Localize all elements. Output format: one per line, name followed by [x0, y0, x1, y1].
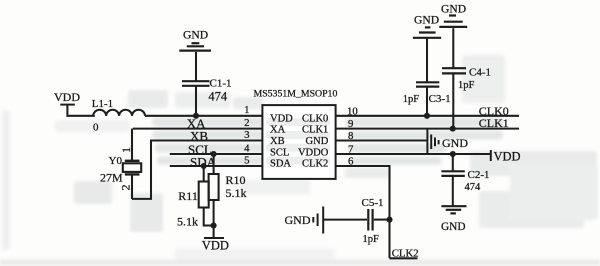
svg-text:4: 4 [244, 142, 250, 154]
svg-text:GND: GND [441, 221, 465, 233]
svg-text:CLK2: CLK2 [302, 159, 328, 170]
net label CLK0 [479, 104, 509, 118]
svg-text:VDDO: VDDO [298, 147, 329, 158]
inductor L1-1 value 0 [93, 110, 145, 116]
power flag VDD (right) [491, 149, 521, 163]
svg-text:C1-1: C1-1 [210, 78, 232, 90]
wire VDD to L1-1 (row1 left) [67, 106, 94, 116]
svg-text:8: 8 [348, 130, 353, 142]
node: R10 junction on SCL [211, 151, 217, 157]
svg-text:5: 5 [244, 154, 249, 166]
svg-text:SCL: SCL [270, 147, 289, 158]
node: R10/R11 bottom junction [211, 222, 217, 228]
svg-text:XB: XB [270, 136, 285, 147]
svg-text:L1-1: L1-1 [92, 98, 113, 110]
svg-text:1pF: 1pF [363, 234, 380, 245]
svg-text:GND: GND [306, 136, 329, 147]
svg-text:2: 2 [119, 185, 133, 191]
svg-text:5.1k: 5.1k [226, 186, 247, 200]
wire pin7 VDDO to VDD flag [336, 153, 491, 155]
power flag VDD (top left) [54, 90, 80, 105]
crystal pin 2 label [119, 185, 133, 191]
svg-text:10: 10 [347, 105, 358, 117]
net label XA [187, 116, 206, 131]
svg-text:R11: R11 [178, 189, 198, 203]
svg-text:SDA: SDA [270, 159, 291, 170]
svg-text:GND: GND [285, 213, 311, 227]
svg-text:7: 7 [348, 144, 354, 156]
svg-text:C5-1: C5-1 [362, 197, 384, 209]
ground above C3-1 [413, 27, 441, 37]
svg-text:1pF: 1pF [458, 80, 475, 91]
crystal pin 1 label [119, 147, 133, 153]
node: C4-1 junction on CLK1 [450, 126, 456, 132]
ground above C1-1 [179, 43, 211, 50]
svg-text:1: 1 [244, 104, 249, 116]
svg-text:MS5351M_MSOP10: MS5351M_MSOP10 [254, 89, 338, 100]
ground at pin8 (sideways) [427, 130, 438, 154]
wire XB net (pin3 to crystal riser) [150, 139, 262, 141]
node: C1-1 junction on VDD net [193, 113, 199, 119]
wire SCL net (pin4) [170, 153, 263, 155]
resistor R11 5.1k [199, 166, 214, 226]
node: C5-1 junction on CLK2 riser [386, 217, 392, 223]
svg-text:3: 3 [244, 129, 249, 141]
wire crystal bottom to XB riser [132, 141, 151, 199]
wire pin8 to ground [336, 139, 427, 141]
ground left of C5-1 (sideways) [313, 207, 323, 234]
U1 pin numbers 1-5 [244, 104, 250, 166]
ground above C4-1 [439, 16, 467, 27]
svg-text:R10: R10 [226, 173, 246, 187]
svg-text:CLK0: CLK0 [302, 113, 328, 124]
svg-text:C3-1: C3-1 [429, 93, 451, 105]
svg-text:C4-1: C4-1 [469, 67, 491, 79]
capacitor C5-1 1pF [368, 209, 389, 231]
svg-text:474: 474 [208, 89, 228, 103]
capacitor C2-1 474 [441, 154, 464, 206]
U1 pin names right column [298, 113, 329, 169]
svg-text:XB: XB [190, 128, 208, 143]
capacitor C3-1 1pF [416, 38, 439, 116]
svg-text:GND: GND [441, 2, 466, 15]
svg-text:2: 2 [244, 117, 249, 129]
svg-text:9: 9 [348, 118, 353, 130]
svg-text:GND: GND [442, 136, 468, 150]
wire SDA net (pin5) [170, 165, 263, 167]
net label CLK2 [390, 248, 419, 260]
net label SDA [190, 154, 217, 169]
node: C2-1 junction on VDDO net [450, 151, 456, 157]
svg-text:6: 6 [348, 156, 354, 168]
crystal Y0 27M [123, 129, 141, 199]
wire ground to C5-1 [324, 219, 367, 221]
svg-text:1: 1 [119, 147, 133, 153]
svg-text:CLK1: CLK1 [302, 125, 328, 136]
node: R11 junction on SDA [201, 163, 207, 169]
ground below C2-1 [441, 206, 466, 213]
svg-text:GND: GND [183, 29, 208, 42]
wire XA net (pin2 to crystal) [133, 128, 263, 130]
IC U1 MS5351M_MSOP10 [262, 105, 335, 179]
svg-text:XA: XA [270, 125, 286, 136]
svg-text:27M: 27M [100, 171, 123, 185]
svg-text:VDD: VDD [54, 90, 80, 104]
net label XB [190, 128, 208, 143]
svg-text:Y0: Y0 [109, 155, 123, 167]
resistor R10 5.1k [209, 154, 219, 226]
svg-text:0: 0 [93, 121, 99, 133]
svg-text:CLK1: CLK1 [479, 116, 509, 130]
U1 pin numbers 10-6 [347, 105, 358, 167]
svg-text:1pF: 1pF [403, 94, 420, 105]
U1 pin names left column [270, 113, 293, 169]
svg-text:GND: GND [414, 14, 439, 27]
net label SCL [188, 142, 212, 157]
svg-text:C2-1: C2-1 [468, 169, 490, 181]
net label CLK1 [479, 116, 509, 130]
wire L1-1 to U1 pin1 VDD net [145, 115, 262, 117]
svg-text:VDD: VDD [494, 149, 521, 163]
capacitor C4-1 1pF [442, 28, 466, 128]
wire CLK0 net (pin10) [336, 115, 519, 117]
svg-text:VDD: VDD [202, 239, 229, 253]
capacitor C1-1 474 [182, 52, 210, 116]
power flag VDD (bottom) [204, 226, 224, 239]
node: C3-1 junction on CLK0 [424, 113, 430, 119]
wire CLK1 net (pin9) [336, 128, 519, 130]
svg-text:474: 474 [465, 182, 482, 193]
svg-text:VDD: VDD [270, 113, 293, 124]
svg-text:5.1k: 5.1k [177, 214, 198, 228]
wire pin6 CLK2 [336, 166, 390, 258]
